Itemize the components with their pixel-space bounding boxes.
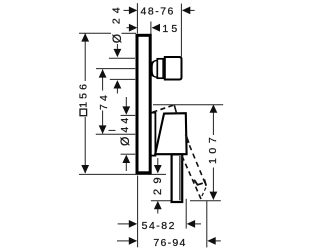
svg-text:24: 24	[110, 2, 122, 24]
svg-text:107: 107	[207, 133, 219, 164]
svg-text:54-82: 54-82	[142, 220, 176, 232]
svg-text:44: 44	[119, 115, 131, 133]
svg-text:15: 15	[162, 23, 180, 35]
svg-text:156: 156	[78, 81, 90, 108]
svg-text:Ø: Ø	[118, 137, 132, 146]
svg-text:29: 29	[152, 172, 164, 195]
svg-text:Ø: Ø	[110, 34, 124, 43]
svg-text:76-94: 76-94	[153, 237, 186, 249]
svg-text:48-76: 48-76	[141, 6, 175, 18]
svg-text:74: 74	[98, 92, 110, 110]
